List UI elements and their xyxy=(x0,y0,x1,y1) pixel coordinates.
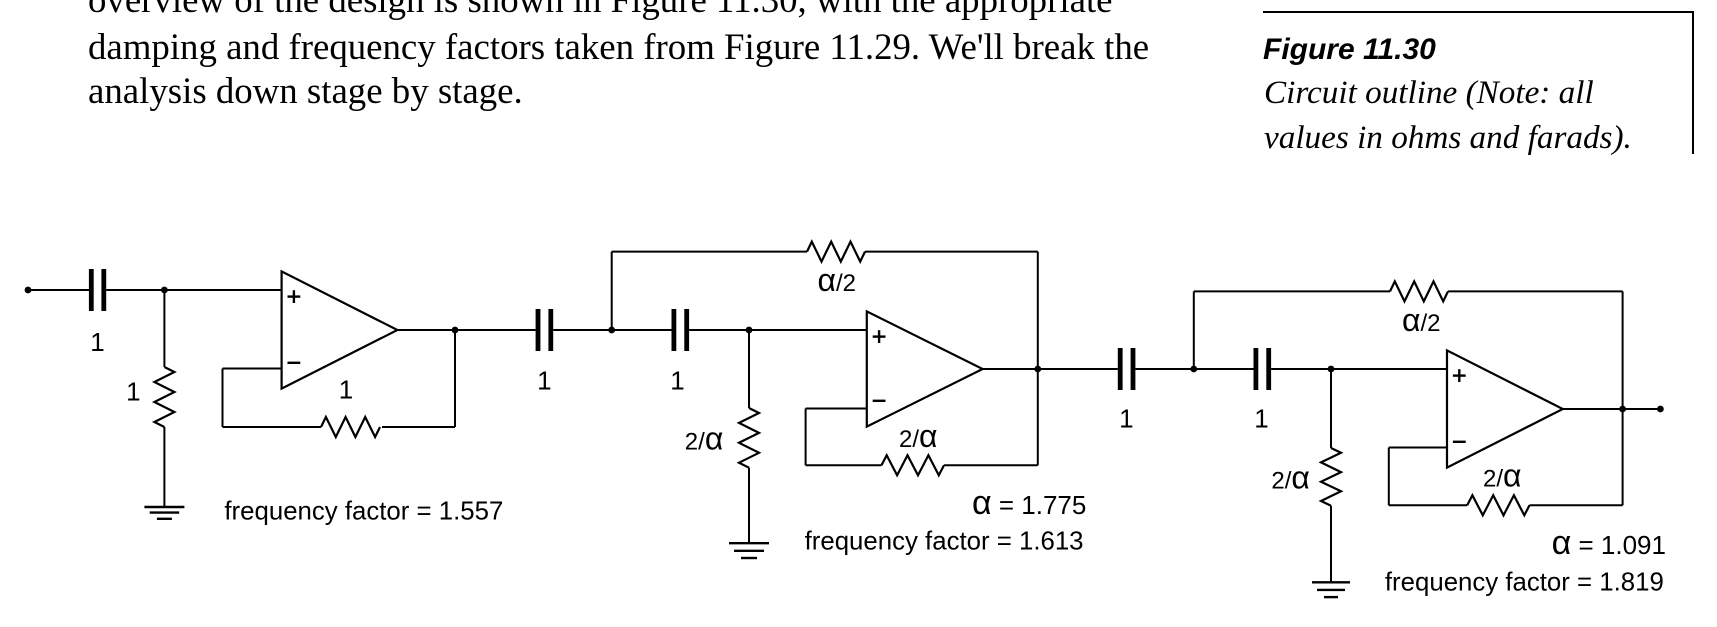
ground GND2 xyxy=(729,543,769,558)
label R5 2/alpha xyxy=(899,418,938,454)
wire feedback bottom right stage3 xyxy=(1530,504,1623,506)
wire U1 output xyxy=(397,329,535,331)
op-amp U1 plus input marker xyxy=(288,290,301,303)
wire U3 output xyxy=(1563,408,1661,410)
wire C3 to node D xyxy=(689,329,749,331)
label frequency factor 1.819 xyxy=(1385,568,1664,596)
capacitor C5 value 1 xyxy=(1256,348,1269,390)
node F junction xyxy=(1190,366,1197,373)
wire feedback left vertical stage3 xyxy=(1388,448,1390,506)
ground GND3 xyxy=(1312,582,1350,597)
resistor R1 value 1 shunt xyxy=(154,367,174,427)
svg-text:2/α: 2/α xyxy=(1483,458,1522,494)
wire U2 minus input xyxy=(806,408,867,410)
svg-text:1: 1 xyxy=(537,365,551,395)
svg-text:2/α: 2/α xyxy=(685,421,724,457)
node D junction xyxy=(746,327,753,334)
label R4 2/alpha xyxy=(685,421,724,457)
wire feedback left vertical stage1 xyxy=(222,369,224,428)
body paragraph line 3 xyxy=(88,69,523,112)
resistor R8 2/alpha feedback xyxy=(1467,495,1529,515)
resistor R6 alpha/2 top feedback xyxy=(1390,281,1448,301)
label R2 value 1 xyxy=(339,374,353,404)
svg-text:2/α: 2/α xyxy=(899,418,938,454)
wire node A down to R1 xyxy=(163,290,165,367)
wire node C up to top feedback xyxy=(611,252,613,330)
op-amp U3 plus input marker xyxy=(1453,369,1466,382)
svg-text:2/α: 2/α xyxy=(1271,460,1310,496)
node C junction xyxy=(608,327,615,334)
node G junction xyxy=(1328,366,1335,373)
wire C4 to node F xyxy=(1135,368,1193,370)
svg-text:1: 1 xyxy=(1254,404,1268,434)
svg-text:α = 1.091: α = 1.091 xyxy=(1552,524,1666,562)
wire node F up to top feedback xyxy=(1193,291,1195,369)
capacitor C1 value 1 xyxy=(91,269,104,311)
input terminal xyxy=(25,287,32,294)
wire output vertical stage1 xyxy=(454,330,456,427)
label R8 2/alpha xyxy=(1483,458,1522,494)
sidebar right rule xyxy=(1692,11,1694,154)
svg-text:1: 1 xyxy=(90,327,104,357)
label frequency factor 1.613 xyxy=(805,528,1084,556)
wire feedback bottom left stage1 xyxy=(223,426,322,428)
resistor R4 2/alpha shunt xyxy=(739,408,759,468)
wire U3 minus input xyxy=(1389,447,1447,449)
wire node G to op-amp U3 + xyxy=(1331,368,1447,370)
wire feedback bottom left stage3 xyxy=(1389,504,1467,506)
label C2 value 1 xyxy=(537,365,551,395)
op-amp U3 xyxy=(1447,350,1563,467)
wire top feedback left stage3 xyxy=(1194,290,1390,292)
wire output vertical stage3 xyxy=(1622,291,1624,505)
node E output stage2 xyxy=(1034,366,1041,373)
op-amp U1 minus input marker xyxy=(288,362,301,364)
ground GND1 xyxy=(144,507,184,519)
wire top feedback right stage2 xyxy=(865,251,1038,253)
wire feedback bottom left stage2 xyxy=(806,464,882,466)
wire output vertical stage2 xyxy=(1037,252,1039,466)
op-amp U3 minus input marker xyxy=(1453,441,1466,443)
label C3 value 1 xyxy=(670,365,684,395)
output terminal xyxy=(1657,406,1664,413)
label alpha = 1.091 xyxy=(1552,524,1666,562)
label alpha = 1.775 xyxy=(972,484,1086,522)
label C4 value 1 xyxy=(1119,404,1133,434)
capacitor C3 value 1 xyxy=(674,309,687,351)
label R3 alpha/2 xyxy=(818,262,857,298)
wire U2 output xyxy=(983,368,1118,370)
capacitor C2 value 1 xyxy=(538,309,551,351)
resistor R2 value 1 feedback xyxy=(321,417,380,437)
label R7 2/alpha xyxy=(1271,460,1310,496)
resistor R3 alpha/2 top feedback xyxy=(807,242,865,262)
sidebar caption line 1 xyxy=(1264,74,1594,112)
node B output stage1 xyxy=(452,327,459,334)
op-amp U1 xyxy=(282,271,398,388)
wire node A to op-amp U1 + xyxy=(164,289,281,291)
wire U1 minus input xyxy=(223,368,282,370)
wire C1 to node A xyxy=(106,289,164,291)
label C5 value 1 xyxy=(1254,404,1268,434)
label R1 value 1 xyxy=(126,377,140,407)
resistor R7 2/alpha shunt xyxy=(1321,448,1341,506)
label R6 alpha/2 xyxy=(1402,302,1441,338)
svg-text:frequency factor = 1.613: frequency factor = 1.613 xyxy=(805,528,1084,556)
svg-text:1: 1 xyxy=(339,374,353,404)
wire C5 to node G xyxy=(1271,368,1331,370)
capacitor C4 value 1 xyxy=(1120,348,1133,390)
svg-text:α/2: α/2 xyxy=(818,262,857,298)
op-amp U2 plus input marker xyxy=(873,330,886,343)
wire C2 to node C xyxy=(553,329,612,331)
wire R4 to ground xyxy=(748,468,750,544)
node H output stage3 xyxy=(1619,406,1626,413)
svg-text:α = 1.775: α = 1.775 xyxy=(972,484,1086,522)
wire input to C1 xyxy=(28,289,89,291)
wire R7 to ground xyxy=(1330,506,1332,583)
wire R1 to ground xyxy=(163,427,165,507)
op-amp U2 xyxy=(867,311,983,426)
wire node D down to R4 xyxy=(748,330,750,408)
sidebar top rule xyxy=(1263,11,1694,13)
label C1 value 1 xyxy=(90,327,104,357)
svg-text:1: 1 xyxy=(1119,404,1133,434)
wire node C to C3 xyxy=(612,329,672,331)
wire feedback left vertical stage2 xyxy=(805,409,807,466)
node A junction xyxy=(161,287,168,294)
resistor R5 2/alpha feedback xyxy=(882,455,945,475)
op-amp U2 minus input marker xyxy=(873,400,886,402)
svg-text:frequency factor = 1.819: frequency factor = 1.819 xyxy=(1385,568,1664,596)
svg-text:1: 1 xyxy=(126,377,140,407)
wire node D to op-amp U2 + xyxy=(749,329,867,331)
wire feedback bottom right stage1 xyxy=(382,426,455,428)
svg-text:1: 1 xyxy=(670,365,684,395)
body paragraph line 1 xyxy=(88,0,1113,21)
wire node F to C5 xyxy=(1194,368,1254,370)
label frequency factor 1.557 xyxy=(224,498,503,526)
wire feedback bottom right stage2 xyxy=(944,464,1038,466)
wire node G down to R7 xyxy=(1330,369,1332,448)
sidebar caption line 2 xyxy=(1264,119,1632,157)
wire top feedback right stage3 xyxy=(1448,290,1623,292)
svg-text:frequency factor = 1.557: frequency factor = 1.557 xyxy=(224,498,503,526)
sidebar caption title Figure 11.30 xyxy=(1263,33,1436,67)
body paragraph line 2 xyxy=(88,25,1149,68)
svg-text:α/2: α/2 xyxy=(1402,302,1441,338)
wire top feedback left stage2 xyxy=(612,251,807,253)
